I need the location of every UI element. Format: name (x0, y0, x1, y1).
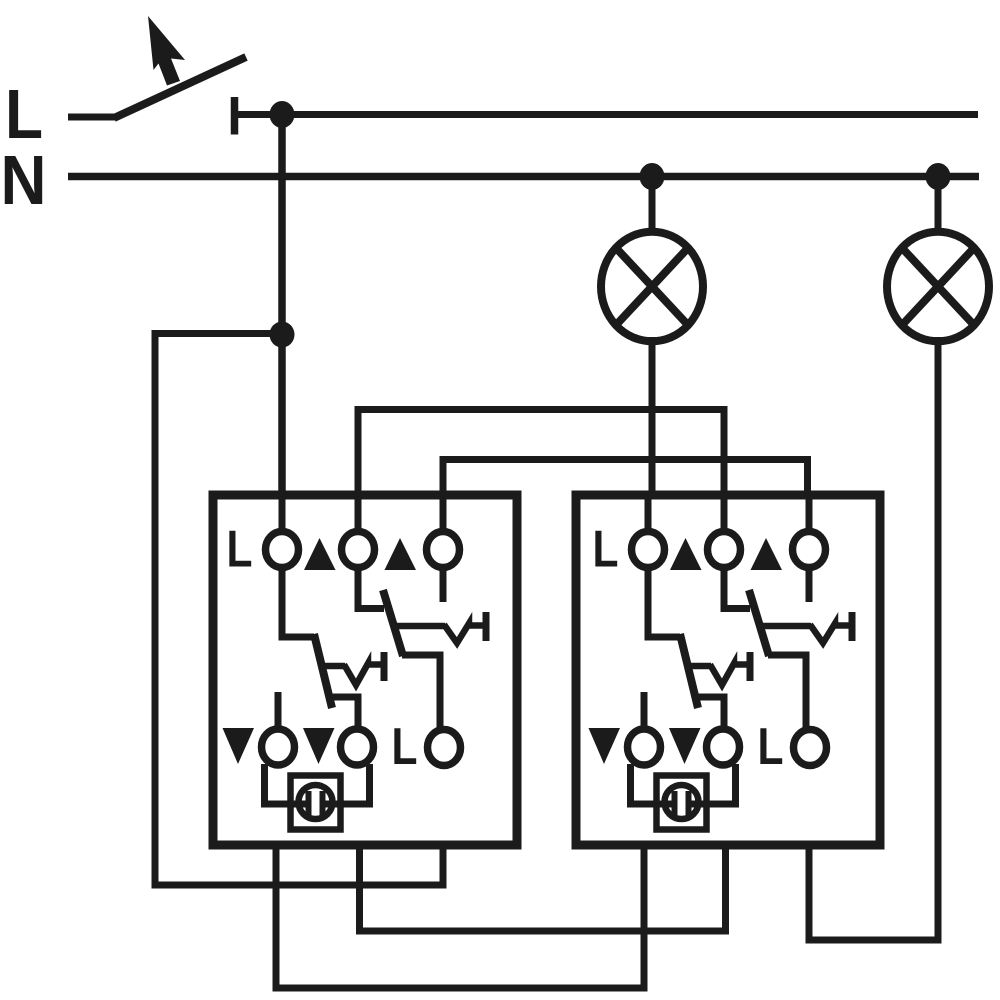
wire lamp E1 down to unit B terminal 1 (649, 337, 656, 499)
arrow up symbol 1 of unit A (304, 538, 336, 570)
terminal 6 (L bottom) of unit A (428, 730, 461, 766)
free stub under terminal 3, unit A (440, 567, 447, 602)
contact K1 lever (changeover), unit A (314, 634, 332, 708)
arrow up symbol 2 of unit B (751, 538, 783, 570)
branch wire left loop to unit A bottom terminal 6 (155, 334, 443, 886)
manual switch S1 contact tick (231, 97, 239, 135)
wire contact K1 to terminal 5, unit A (331, 697, 358, 729)
contact K1 throw line, unit A (320, 663, 345, 670)
svg-text:L: L (758, 718, 784, 776)
motor M1 rotor circle, unit B (665, 785, 699, 819)
wire lamp E2 down right side to unit B terminal 6 (809, 337, 938, 940)
lamp E2 circle (887, 232, 989, 342)
contact K1 detent chevron, unit B (710, 664, 748, 686)
contact K2 lever (changeover), unit B (749, 590, 769, 656)
stub wire terminal 2 to enclosure top, unit A (355, 499, 362, 533)
contact K1 lever (changeover), unit B (680, 634, 698, 708)
wire terminal 5 to motor, unit B (688, 764, 736, 804)
terminal 4 (down) of unit A (262, 729, 295, 765)
svg-text:L: L (593, 521, 619, 579)
motor M1 left brush bar, unit B (672, 791, 678, 817)
terminal 4 (down) of unit B (628, 729, 661, 765)
wire terminal 1 down to contact K1, unit B (648, 567, 680, 637)
lamp E1 circle (601, 232, 703, 342)
motor M1 right brush bar, unit A (320, 791, 326, 817)
terminal 5 of unit A (341, 729, 374, 765)
terminal 1 (L top) of unit B (632, 532, 665, 568)
contact K1 stop bar, unit A (381, 652, 388, 681)
interconnect wire unit A terminal 5 to unit B terminal 5 (360, 847, 726, 931)
contact K2 throw line, unit B (759, 623, 811, 630)
stub wire terminal 1 to enclosure top, unit B (645, 499, 652, 533)
svg-text:N: N (1, 141, 47, 219)
stub wire terminal 3 to enclosure top, unit B (806, 499, 813, 533)
N bus wire (68, 173, 979, 181)
contact K2 stop bar, unit A (483, 612, 490, 641)
manual switch S1 actuator arrow (148, 16, 185, 86)
interconnect wire unit A terminal 2 to unit B terminal 2 (358, 410, 724, 494)
wire terminal 4 to motor, unit B (631, 764, 678, 804)
terminal 1 (L top) of unit A (266, 532, 299, 568)
wire terminal 1 down to contact K1, unit A (282, 567, 314, 637)
arrow down symbol 1 of unit B (589, 728, 621, 764)
arrow up symbol 1 of unit B (670, 538, 702, 570)
interconnect wire unit A terminal 4 to unit B terminal 4 (276, 847, 644, 988)
wire terminal 5 to motor, unit A (322, 764, 370, 804)
free stub above terminal 4, unit A (275, 692, 282, 729)
node dot feed branch (270, 322, 295, 348)
arrow down symbol 2 of unit B (669, 728, 701, 764)
lamp E1 cross (616, 248, 688, 325)
free stub above terminal 4, unit B (641, 692, 648, 729)
contact K2 stop bar, unit B (849, 612, 856, 641)
wire N bus to lamp E2 (935, 176, 942, 235)
wire N bus to lamp E1 (649, 176, 656, 235)
motor M1 left brush bar, unit A (306, 791, 312, 817)
L bus wire (234, 111, 978, 118)
motor M1 outline box, unit A (291, 776, 341, 830)
motor M1 rotor circle, unit A (299, 785, 333, 819)
terminal 2 (up) of unit A (342, 532, 375, 568)
interconnect wire unit A terminal 3 to unit B terminal 3 (443, 460, 808, 494)
wire contact K1 to terminal 5, unit B (697, 697, 724, 729)
node dot on L bus at feed (270, 101, 295, 128)
switch unit B enclosure (576, 495, 880, 845)
motor M1 right brush bar, unit B (686, 791, 692, 817)
motor M1 outline box, unit B (657, 776, 707, 830)
wire contact K2 to terminal 6, unit A (402, 655, 440, 729)
arrow down symbol 2 of unit A (303, 728, 335, 764)
manual switch S1 fixed stub (68, 114, 117, 121)
terminal 2 (up) of unit B (708, 532, 741, 568)
svg-text:L: L (227, 521, 253, 579)
stub wire terminal 2 to enclosure top, unit B (721, 499, 728, 533)
stub wire terminal 1 to enclosure top, unit A (279, 499, 286, 533)
terminal 3 of unit A (427, 532, 460, 568)
terminal 6 (L bottom) of unit B (794, 730, 827, 766)
contact K1 stop bar, unit B (747, 652, 754, 681)
contact K2 lever (changeover), unit A (383, 590, 403, 656)
contact K2 detent chevron, unit B (810, 624, 849, 644)
terminal 5 of unit B (707, 729, 740, 765)
terminal 3 of unit B (793, 532, 826, 568)
arrow up symbol 2 of unit A (385, 538, 417, 570)
svg-text:L: L (392, 718, 418, 776)
wire terminal 4 to motor, unit A (265, 764, 312, 804)
node dot on N bus for lamp E2 (926, 163, 951, 190)
stub wire terminal 3 to enclosure top, unit A (440, 499, 447, 533)
arrow down symbol 1 of unit A (223, 728, 255, 764)
node dot on N bus for lamp E1 (640, 163, 665, 190)
wire terminal 2 down to contact K2, unit A (358, 567, 384, 609)
contact K2 detent chevron, unit A (444, 624, 483, 644)
contact K2 throw line, unit A (393, 623, 445, 630)
free stub under terminal 3, unit B (806, 567, 813, 602)
wire terminal 2 down to contact K2, unit B (724, 567, 750, 609)
contact K1 throw line, unit B (686, 663, 711, 670)
lamp E2 cross (902, 248, 974, 325)
manual switch S1 lever (open) (114, 57, 246, 118)
wire contact K2 to terminal 6, unit B (768, 655, 806, 729)
feed wire from L bus down to unit A (278, 114, 286, 499)
switch unit A enclosure (213, 495, 517, 845)
contact K1 detent chevron, unit A (344, 664, 382, 686)
